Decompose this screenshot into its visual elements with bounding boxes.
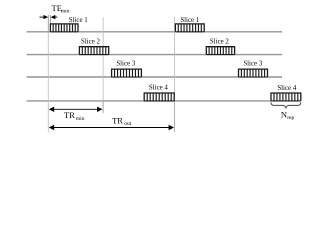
svg-text:rep: rep	[287, 115, 294, 121]
svg-text:out: out	[124, 121, 132, 127]
svg-text:Slice 2: Slice 2	[210, 39, 230, 46]
svg-text:min: min	[76, 116, 85, 122]
svg-text:Slice 1: Slice 1	[180, 17, 200, 24]
svg-text:min: min	[61, 8, 70, 14]
svg-text:Slice 1: Slice 1	[69, 17, 89, 24]
svg-text:N: N	[281, 110, 287, 120]
svg-text:Slice 4: Slice 4	[277, 85, 297, 92]
svg-text:Slice 4: Slice 4	[149, 85, 169, 92]
svg-text:TR: TR	[112, 116, 123, 126]
svg-text:Slice 3: Slice 3	[116, 61, 136, 68]
svg-text:Slice 3: Slice 3	[243, 61, 263, 68]
svg-text:TR: TR	[64, 110, 75, 120]
svg-text:Slice 2: Slice 2	[81, 39, 101, 46]
